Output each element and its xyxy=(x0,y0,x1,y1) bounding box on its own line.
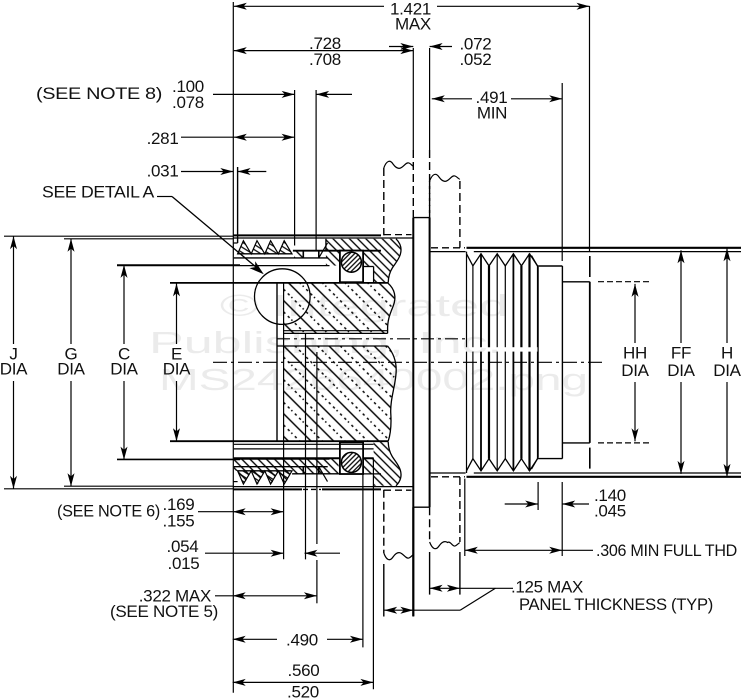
svg-text:.306 MIN FULL THD: .306 MIN FULL THD xyxy=(596,541,737,560)
svg-text:.052: .052 xyxy=(460,50,492,69)
svg-text:(SEE NOTE 6): (SEE NOTE 6) xyxy=(57,502,160,521)
svg-text:.015: .015 xyxy=(168,554,200,573)
svg-text:DIA: DIA xyxy=(713,361,741,380)
svg-text:(SEE NOTE 5): (SEE NOTE 5) xyxy=(110,602,218,621)
svg-text:DIA: DIA xyxy=(667,361,695,380)
svg-text:DIA: DIA xyxy=(621,361,649,380)
svg-text:.560: .560 xyxy=(288,661,320,680)
svg-text:H: H xyxy=(721,344,733,363)
svg-text:.708: .708 xyxy=(309,50,341,69)
svg-text:MAX: MAX xyxy=(395,15,431,34)
svg-text:.281: .281 xyxy=(147,129,179,148)
svg-text:.078: .078 xyxy=(172,93,204,112)
svg-text:PANEL THICKNESS (TYP): PANEL THICKNESS (TYP) xyxy=(519,595,713,614)
svg-text:.031: .031 xyxy=(147,162,179,181)
svg-text:.155: .155 xyxy=(163,512,195,531)
svg-text:HH: HH xyxy=(623,344,647,363)
svg-text:DIA: DIA xyxy=(57,360,85,379)
svg-text:MIN: MIN xyxy=(477,104,507,123)
svg-text:.490: .490 xyxy=(286,631,318,650)
svg-text:FF: FF xyxy=(671,344,691,363)
svg-text:DIA: DIA xyxy=(163,360,191,379)
svg-text:DIA: DIA xyxy=(0,360,28,379)
svg-text:.045: .045 xyxy=(594,502,626,521)
svg-text:SEE DETAIL A: SEE DETAIL A xyxy=(42,183,155,202)
svg-text:DIA: DIA xyxy=(110,360,138,379)
svg-text:.125 MAX: .125 MAX xyxy=(511,578,583,597)
svg-text:.520: .520 xyxy=(287,683,319,699)
svg-text:(SEE NOTE 8): (SEE NOTE 8) xyxy=(36,84,162,103)
